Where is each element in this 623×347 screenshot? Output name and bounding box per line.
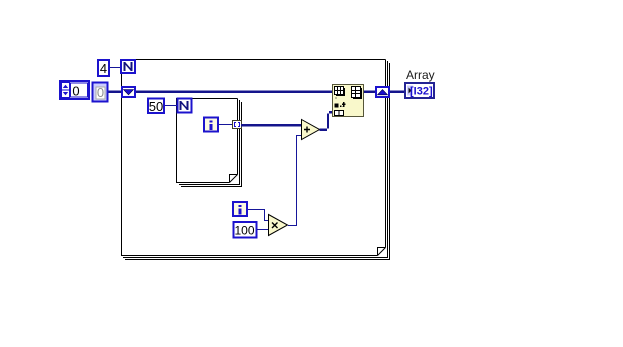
index glyph: square, dots, arrow	[335, 102, 346, 108]
svg-text:50: 50	[149, 99, 163, 114]
wire: outer i to multiply upper input	[248, 210, 268, 221]
wire: right shift register to array indicator	[389, 91, 406, 94]
outer for loop border stack lines	[123, 61, 390, 260]
array wire: add output up into node	[320, 111, 333, 131]
wire: array constant to left shift register	[108, 91, 122, 94]
inner loop count terminal N	[177, 99, 191, 113]
outer for loop main border	[122, 60, 386, 256]
svg-text:Array: Array	[406, 68, 435, 82]
svg-text:0: 0	[97, 85, 104, 100]
numeric constant 100	[233, 222, 256, 238]
svg-text:100: 100	[234, 224, 254, 238]
scalar wire: multiply output up to add lower input	[288, 136, 301, 226]
inner for loop main border	[177, 99, 238, 183]
left shift register terminal	[122, 87, 135, 97]
auto-indexing tunnel on inner loop	[233, 121, 242, 129]
numeric constant 50	[148, 99, 164, 115]
inner for loop dog-ear corner	[230, 175, 238, 183]
wire: 100 to multiply lower input	[257, 229, 268, 231]
svg-text:[I32]: [I32]	[410, 86, 433, 98]
array constant (element part, empty/grayed)	[93, 83, 108, 102]
outer iteration terminal i	[233, 202, 247, 216]
inner for loop border stack lines	[179, 100, 242, 187]
top-right array grid with shadow	[352, 87, 362, 99]
wire: constant 4 to outer N	[110, 67, 121, 69]
top-left 2D array grid with shadow	[335, 87, 345, 96]
array wire: tunnel to add	[241, 124, 301, 127]
multiply function	[269, 215, 288, 236]
svg-text:0: 0	[72, 84, 79, 99]
wire: node to right shift register	[363, 91, 376, 94]
inner iteration terminal i	[204, 118, 218, 132]
right shift register terminal	[376, 87, 389, 97]
outer loop count terminal N	[121, 60, 135, 73]
replace array subset node	[333, 85, 364, 117]
array indicator terminal I32	[405, 83, 434, 98]
svg-text:4: 4	[100, 61, 107, 76]
main array wire: shift register to replace-array-subset node	[135, 91, 333, 94]
wire: 50 to inner N	[165, 105, 177, 107]
array constant (index spinner part)	[60, 81, 89, 99]
bottom two-cell element	[335, 111, 344, 116]
add function	[302, 120, 320, 140]
wire: i to indexing tunnel	[219, 124, 233, 126]
numeric constant 4	[98, 60, 109, 76]
outer for loop dog-ear corner	[378, 248, 386, 256]
